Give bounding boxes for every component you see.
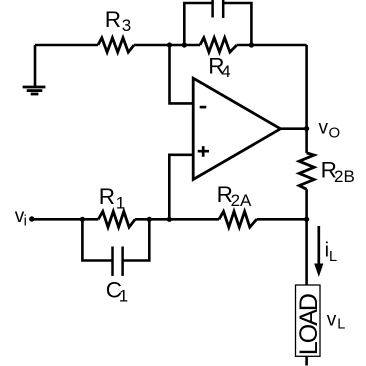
svg-text:v: v (327, 310, 337, 331)
svg-text:v: v (319, 118, 329, 139)
svg-text:R: R (99, 184, 115, 209)
svg-text:1: 1 (119, 287, 128, 306)
svg-text:i: i (24, 214, 27, 230)
svg-text:O: O (329, 125, 341, 142)
svg-text:LOAD: LOAD (295, 294, 323, 355)
svg-text:R: R (105, 7, 121, 32)
svg-text:4: 4 (221, 62, 230, 81)
svg-text:2B: 2B (334, 167, 355, 186)
svg-text:L: L (329, 249, 337, 265)
svg-text:L: L (337, 316, 345, 332)
svg-text:1: 1 (116, 194, 125, 213)
svg-text:2A: 2A (231, 191, 252, 210)
svg-text:3: 3 (122, 16, 131, 35)
